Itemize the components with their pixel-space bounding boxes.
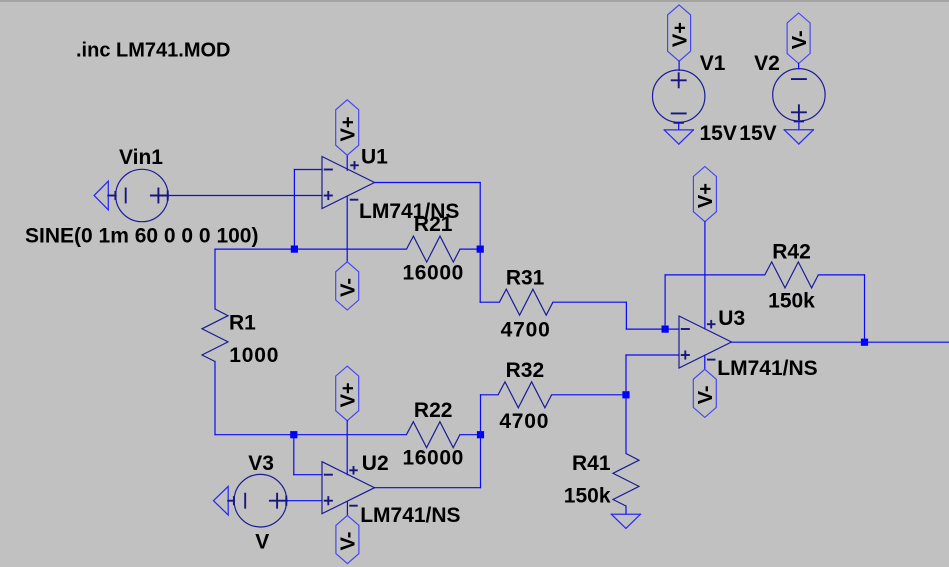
value 16000 (R21) bbox=[402, 262, 463, 285]
U2 noninverting input marker bbox=[325, 497, 332, 504]
value 150k (R42) bbox=[768, 290, 815, 313]
label U3 bbox=[718, 307, 745, 330]
svg-text:U2: U2 bbox=[362, 452, 389, 475]
svg-text:U1: U1 bbox=[361, 146, 388, 169]
svg-text:V-: V- bbox=[789, 30, 811, 49]
spice directive .inc bbox=[76, 40, 230, 62]
wire U3 output bbox=[732, 341, 949, 343]
wire R41 to ground bbox=[625, 506, 627, 514]
wire Vin1 to U1 +in bbox=[168, 195, 322, 197]
wire U1 output bbox=[375, 182, 481, 184]
wire V2 V- stem bbox=[798, 64, 800, 69]
svg-text:150k: 150k bbox=[564, 485, 611, 508]
label U3 LM741/NS bbox=[717, 357, 817, 380]
resistor R31 bbox=[499, 289, 553, 315]
voltage source V1 bbox=[653, 70, 705, 123]
svg-text:V3: V3 bbox=[248, 452, 274, 475]
voltage source Vin1 bbox=[116, 169, 168, 221]
label U1 bbox=[361, 146, 388, 169]
wire U3 -in up bbox=[664, 275, 666, 329]
wire junction down to R41 bbox=[625, 395, 627, 454]
value 15V (V1) bbox=[700, 122, 737, 145]
svg-text:1000: 1000 bbox=[229, 344, 279, 367]
svg-text:V1: V1 bbox=[700, 52, 726, 75]
U1 inverting input marker bbox=[325, 169, 332, 171]
net flag V- below U3 bbox=[693, 369, 717, 417]
wire R31 to corner bbox=[553, 301, 627, 303]
svg-text:R42: R42 bbox=[772, 241, 811, 264]
V3 left arrow terminal bbox=[214, 486, 235, 515]
svg-text:V-: V- bbox=[695, 385, 717, 404]
svg-text:V-: V- bbox=[338, 532, 360, 551]
svg-text:.inc LM741.MOD: .inc LM741.MOD bbox=[76, 40, 230, 62]
junction R32 / R41 / U3 +in bbox=[622, 391, 629, 398]
net flag V+ above U2 bbox=[336, 366, 360, 421]
wire R22 to node bbox=[460, 434, 481, 436]
wire rail1 left segment bbox=[215, 248, 407, 250]
svg-text:R32: R32 bbox=[506, 359, 545, 382]
net flag V- above V2 bbox=[787, 13, 811, 64]
label R21 bbox=[414, 213, 453, 236]
value 1000 (R1) bbox=[229, 344, 279, 367]
label V1 bbox=[700, 52, 726, 75]
wire corner down to U3 -in level bbox=[625, 302, 627, 329]
label U1 LM741/NS bbox=[359, 200, 459, 223]
value 4700 (R32) bbox=[499, 410, 549, 433]
svg-text:4700: 4700 bbox=[501, 319, 551, 342]
resistor R1 bbox=[202, 309, 228, 362]
U1 V+ pin marker bbox=[351, 162, 358, 169]
svg-text:16000: 16000 bbox=[402, 447, 463, 470]
junction rail1 at U1 -in branch bbox=[291, 246, 298, 253]
voltage source V3 bbox=[234, 474, 287, 527]
net flag V+ above V1 bbox=[668, 5, 692, 61]
svg-text:V: V bbox=[255, 530, 269, 553]
wire U3 V+ stem bbox=[704, 222, 706, 329]
value V (V3) bbox=[255, 530, 269, 553]
label R32 bbox=[506, 359, 545, 382]
wire R32 to junction bbox=[552, 394, 626, 396]
junction U3 output bbox=[861, 339, 868, 346]
svg-text:SINE(0 1m 60 0 0 0 100): SINE(0 1m 60 0 0 0 100) bbox=[25, 224, 258, 247]
svg-text:LM741/NS: LM741/NS bbox=[717, 357, 817, 380]
svg-text:R31: R31 bbox=[506, 267, 545, 290]
value 15V (V2) bbox=[739, 122, 776, 145]
svg-text:R21: R21 bbox=[414, 213, 453, 236]
wire V1 to ground bbox=[678, 122, 680, 129]
svg-text:V2: V2 bbox=[754, 52, 780, 75]
wire U1 output down bbox=[479, 183, 481, 303]
wire U3 V- stem bbox=[704, 355, 706, 369]
wire down to output bbox=[864, 275, 866, 342]
wire to U2 -in bbox=[294, 474, 322, 476]
svg-text:V+: V+ bbox=[695, 183, 717, 208]
svg-text:16000: 16000 bbox=[402, 262, 463, 285]
label V2 bbox=[754, 52, 780, 75]
value 4700 (R31) bbox=[501, 319, 551, 342]
wire U1 V+ stem bbox=[346, 155, 348, 170]
U1 noninverting input marker bbox=[325, 192, 332, 199]
wire V1 V+ stem bbox=[678, 61, 680, 70]
wire U2 output bbox=[375, 487, 481, 489]
label R31 bbox=[506, 267, 545, 290]
label Vin1 bbox=[119, 146, 163, 169]
U3 noninverting input marker bbox=[682, 351, 689, 358]
wire U1 -in to feedback node bbox=[293, 170, 295, 250]
label U2 bbox=[362, 452, 389, 475]
wire R21 to node bbox=[460, 248, 480, 250]
resistor R42 bbox=[765, 262, 819, 288]
junction U3 -in / feedback bbox=[662, 326, 669, 333]
net flag V- below U1 bbox=[336, 262, 360, 310]
U2 V- pin marker bbox=[350, 505, 357, 507]
ground below R41 bbox=[611, 514, 640, 528]
U2 inverting input marker bbox=[325, 474, 332, 476]
ground below V1 bbox=[664, 130, 693, 144]
wire U2 output up bbox=[480, 395, 482, 488]
wire rail1 to R1 bbox=[214, 249, 216, 309]
svg-text:R1: R1 bbox=[229, 312, 256, 335]
op-amp U2 bbox=[322, 462, 375, 514]
label R22 bbox=[414, 399, 453, 422]
wire rail2 down to U2 -in bbox=[293, 435, 295, 475]
resistor R32 bbox=[498, 382, 551, 408]
junction R21 / U1 output node bbox=[477, 246, 484, 253]
svg-text:R22: R22 bbox=[414, 399, 453, 422]
label R41 bbox=[572, 452, 611, 475]
svg-text:V-: V- bbox=[337, 278, 359, 297]
svg-text:15V: 15V bbox=[739, 122, 776, 145]
Vin1 left arrow terminal bbox=[94, 181, 116, 210]
junction rail2 at U2 -in branch bbox=[290, 431, 297, 438]
wire junction up bbox=[625, 355, 627, 395]
svg-text:V+: V+ bbox=[337, 382, 359, 407]
label U2 LM741/NS bbox=[360, 504, 460, 527]
resistor R21 bbox=[407, 236, 461, 262]
svg-text:15V: 15V bbox=[700, 122, 737, 145]
wire U1 -in horizontal bbox=[294, 169, 322, 171]
U3 inverting input marker bbox=[682, 328, 689, 330]
svg-text:4700: 4700 bbox=[499, 410, 549, 433]
wire U1 V- stem bbox=[346, 196, 348, 261]
wire U2 V- stem bbox=[346, 502, 348, 516]
svg-text:R41: R41 bbox=[572, 452, 611, 475]
op-amp U3 bbox=[679, 316, 732, 368]
net flag V+ above U3 bbox=[693, 167, 717, 222]
value 16000 (R22) bbox=[402, 447, 463, 470]
svg-text:U3: U3 bbox=[718, 307, 745, 330]
wire R42 to output corner bbox=[818, 274, 864, 276]
wire rail2 left segment bbox=[215, 434, 406, 436]
wire to R32 bbox=[481, 394, 499, 396]
label V3 bbox=[248, 452, 274, 475]
U2 V+ pin marker bbox=[350, 467, 357, 474]
net flag V+ above U1 bbox=[336, 100, 360, 155]
svg-text:150k: 150k bbox=[768, 290, 815, 313]
resistor R41 bbox=[613, 454, 639, 507]
label R42 bbox=[772, 241, 811, 264]
wire to U3 +in bbox=[626, 354, 679, 356]
svg-text:Vin1: Vin1 bbox=[119, 146, 163, 169]
wire to U3 -in bbox=[626, 328, 679, 330]
wire U2 V+ stem bbox=[346, 421, 348, 475]
svg-text:V+: V+ bbox=[337, 116, 359, 141]
ground below V2 bbox=[784, 130, 813, 144]
svg-text:LM741/NS: LM741/NS bbox=[360, 504, 460, 527]
U1 V- pin marker bbox=[351, 199, 358, 201]
label R1 bbox=[229, 312, 256, 335]
net flag V- below U2 bbox=[336, 515, 360, 563]
svg-text:V+: V+ bbox=[669, 22, 691, 47]
wire to R31 bbox=[480, 301, 499, 303]
resistor R22 bbox=[406, 422, 460, 448]
wire V2 to ground bbox=[798, 121, 800, 130]
wire V3 to U2 +in bbox=[287, 500, 322, 502]
wire to R42 bbox=[665, 274, 765, 276]
op-amp U1 bbox=[322, 157, 375, 209]
value 150k (R41) bbox=[564, 485, 611, 508]
top window edge strip bbox=[0, 0, 949, 2]
wire R1 to rail2 bbox=[214, 362, 216, 435]
U3 V+ pin marker bbox=[708, 321, 715, 328]
junction R22 / U2 output node bbox=[477, 431, 484, 438]
value SINE(0 1m 60 0 0 0 100) bbox=[25, 224, 258, 247]
voltage source V2 bbox=[773, 69, 825, 122]
U3 V- pin marker bbox=[708, 359, 715, 361]
